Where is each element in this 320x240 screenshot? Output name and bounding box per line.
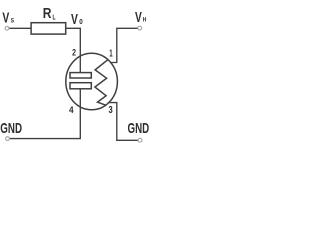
svg-text:GND: GND	[0, 121, 22, 137]
svg-text:L: L	[53, 15, 57, 22]
wire pin 3 to GND right	[109, 103, 138, 141]
terminal VH	[138, 26, 142, 30]
svg-text:V: V	[71, 11, 78, 28]
wire pin 1 to VH terminal	[111, 28, 138, 62]
terminal VS	[5, 26, 9, 30]
sensor plate lower	[70, 83, 91, 89]
terminal GND left	[6, 137, 10, 141]
svg-text:R: R	[43, 5, 52, 22]
resistor RL	[31, 23, 66, 34]
svg-text:2: 2	[72, 48, 76, 59]
svg-text:H: H	[143, 18, 147, 24]
wire resistor to pin 2 (V0 node)	[66, 28, 81, 72]
svg-text:0: 0	[79, 19, 83, 26]
svg-text:4: 4	[69, 104, 74, 115]
heater zigzag (internal resistor)	[95, 59, 108, 105]
svg-text:V: V	[135, 9, 142, 26]
gas sensor bulb U1	[66, 53, 118, 110]
svg-text:V: V	[2, 10, 9, 27]
svg-text:S: S	[11, 18, 15, 25]
svg-text:3: 3	[109, 105, 114, 116]
wire VS to resistor	[9, 27, 31, 29]
wire pin 4 to GND left	[10, 89, 81, 139]
svg-text:GND: GND	[128, 121, 150, 137]
terminal GND right	[138, 138, 142, 142]
svg-text:1: 1	[109, 49, 113, 60]
sensor plate upper	[70, 73, 91, 78]
